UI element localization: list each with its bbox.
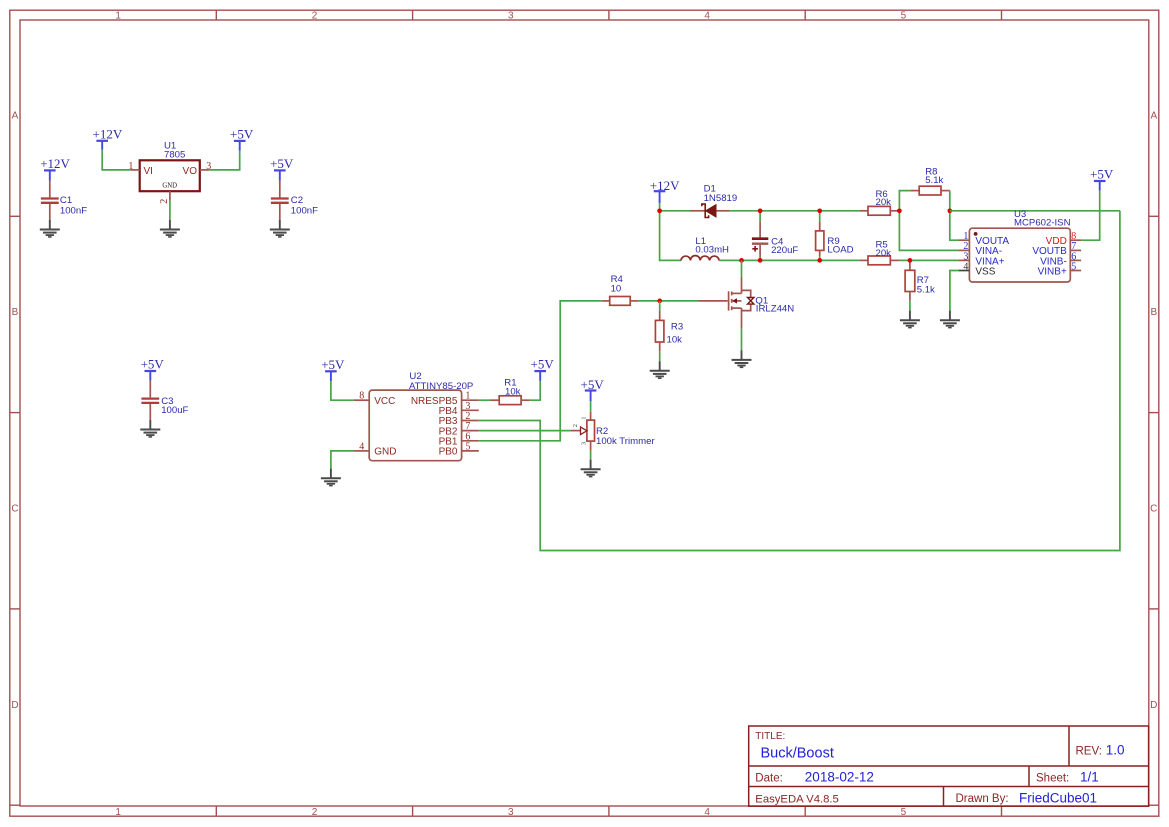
pin 3 (U3 VINA+) [959, 251, 970, 262]
svg-text:7805: 7805 [164, 149, 185, 160]
pin 8 (U3 VDD) [1070, 231, 1081, 242]
ground (below R7) [900, 311, 920, 328]
svg-text:2018-02-12: 2018-02-12 [805, 770, 874, 785]
svg-text:100k Trimmer: 100k Trimmer [596, 436, 655, 447]
resistor R2 100k Trimmer [570, 412, 655, 451]
svg-text:1: 1 [115, 10, 121, 21]
wire +12V rail down to L1 [660, 211, 681, 261]
svg-text:ATTINY85-20P: ATTINY85-20P [409, 381, 473, 392]
pin 6 (U3 VINB-) [1070, 251, 1081, 262]
ground (below R3) [650, 361, 670, 378]
wire VINA- branch [899, 211, 958, 251]
svg-text:VSS: VSS [975, 266, 995, 277]
wire U3 VDD to +5V [1081, 191, 1100, 241]
svg-text:+5V: +5V [1090, 167, 1114, 182]
SECTION3 U2 area [321, 211, 1120, 551]
svg-text:2: 2 [572, 424, 579, 427]
power +5V (net flag at R1) [531, 357, 555, 381]
capacitor C1 [41, 181, 87, 220]
pin 3 (U2 PB4) [462, 401, 479, 412]
wire R2 bottom to ground [590, 451, 592, 460]
resistor R6 20k [860, 189, 900, 215]
pin 1 (U1 VI) [128, 161, 139, 172]
op-amp U2 ATTINY85-20P [369, 371, 473, 461]
svg-text:4: 4 [963, 261, 968, 272]
transistor Q1 IRLZ44N [698, 277, 794, 329]
pin 1 (U2 NRESPB5) [462, 391, 479, 402]
resistor R4 10 [601, 274, 638, 305]
svg-text:+5V: +5V [531, 357, 555, 372]
node +12V rail junction [657, 208, 662, 213]
ground (below Q1) [732, 350, 752, 367]
op-amp U1 7805 regulator [140, 141, 200, 192]
svg-text:10: 10 [611, 284, 622, 295]
wire Q1 source to ground [741, 329, 743, 351]
svg-text:VINB+: VINB+ [1038, 266, 1067, 277]
node R9 top junction [817, 208, 822, 213]
op-amp U3 MCP602-ISN [969, 209, 1070, 282]
svg-text:3: 3 [508, 10, 514, 21]
node R5 R7 VINA+ junction [908, 258, 913, 263]
wire +12V stub to rail [659, 203, 661, 211]
svg-text:3: 3 [508, 807, 514, 818]
svg-text:0.03mH: 0.03mH [695, 245, 729, 256]
svg-text:A: A [12, 111, 19, 122]
wire R7 to ground [909, 301, 911, 311]
ground (below C1) [40, 220, 60, 237]
svg-text:10k: 10k [505, 386, 521, 397]
wire R1 to +5V [530, 381, 540, 400]
svg-text:+5V: +5V [270, 156, 294, 171]
power +5V (net flag at U1 output) [230, 126, 254, 150]
node R6 output junction [897, 208, 902, 213]
power +12V (net flag at U1 input) [93, 126, 123, 150]
wire R5 to VINA+ [899, 259, 958, 261]
svg-text:220uF: 220uF [771, 245, 798, 256]
power +12V (net flag at top rail) [650, 178, 680, 203]
svg-text:R3: R3 [671, 321, 683, 332]
svg-text:4: 4 [704, 807, 710, 818]
svg-text:C2: C2 [291, 195, 303, 206]
wire U2 GND to ground [331, 451, 354, 469]
wire R3 to ground [659, 351, 661, 361]
svg-text:+5V: +5V [321, 357, 345, 372]
resistor R8 5.1k [910, 167, 949, 195]
svg-text:Date:: Date: [755, 773, 783, 785]
power +5V (net flag at U2 VCC) [321, 357, 345, 381]
svg-text:2: 2 [312, 10, 318, 21]
svg-text:1N5819: 1N5819 [704, 193, 738, 204]
svg-text:+12V: +12V [93, 126, 123, 141]
svg-text:GND: GND [374, 447, 396, 458]
pin 4 (U2 GND) [354, 441, 370, 452]
pin 5 (U2 PB0) [462, 441, 479, 452]
wire VOUTA branch [950, 211, 959, 240]
ground (below C2) [270, 220, 290, 237]
svg-text:1: 1 [128, 161, 133, 172]
resistor R3 10k [655, 301, 683, 351]
svg-text:Buck/Boost: Buck/Boost [761, 746, 834, 762]
resistor R9 LOAD [816, 222, 854, 257]
svg-text:C: C [1150, 503, 1157, 514]
svg-text:A: A [1150, 111, 1157, 122]
svg-text:VI: VI [144, 166, 153, 177]
pin 2 (U3 VINA-) [959, 241, 970, 252]
pin 7 (U3 VOUTB) [1070, 241, 1081, 252]
node gate junction [657, 299, 662, 304]
svg-text:20k: 20k [876, 197, 892, 208]
svg-text:100uF: 100uF [161, 405, 188, 416]
svg-text:3: 3 [581, 442, 588, 445]
svg-text:TITLE:: TITLE: [755, 731, 785, 742]
svg-text:+12V: +12V [40, 156, 70, 171]
svg-text:4: 4 [704, 10, 710, 21]
svg-text:IRLZ44N: IRLZ44N [756, 304, 794, 315]
svg-text:+5V: +5V [230, 126, 254, 141]
node R9 bottom junction [817, 258, 822, 263]
resistor R5 20k [860, 240, 900, 265]
svg-text:100nF: 100nF [60, 206, 87, 217]
svg-text:1.0: 1.0 [1106, 743, 1125, 758]
svg-text:1: 1 [581, 416, 588, 419]
svg-text:1/1: 1/1 [1080, 770, 1099, 785]
svg-text:FriedCube01: FriedCube01 [1019, 790, 1097, 805]
svg-text:REV:: REV: [1076, 745, 1102, 757]
wire R4 to gate junction [639, 300, 660, 302]
pin 7 (U2 PB2) [462, 421, 479, 432]
node Q1 drain junction [739, 258, 744, 263]
capacitor C2 [271, 181, 318, 220]
ground (below U1 pin2) [160, 220, 180, 237]
svg-text:+5V: +5V [141, 357, 165, 372]
wire PB3 feedback loop [479, 211, 1120, 551]
svg-text:D: D [1150, 700, 1157, 711]
svg-text:MCP602-ISN: MCP602-ISN [1014, 217, 1071, 228]
wire mid rail segment [719, 259, 860, 261]
pin 4 (U3 VSS) [959, 261, 970, 272]
power +5V (net flag at U3 VDD) [1090, 167, 1114, 191]
wire R8 left branch [899, 191, 910, 211]
TITLEBLOCK [749, 726, 1149, 807]
power +5V (net flag at R2) [581, 377, 605, 401]
svg-text:5: 5 [901, 807, 907, 818]
svg-text:C: C [11, 503, 18, 514]
resistor R7 5.1k [905, 260, 935, 300]
wire U3 VSS to ground [950, 271, 959, 311]
inductor L1 [681, 236, 729, 260]
wire top rail left segment [660, 210, 690, 212]
wire C4 top lead [759, 211, 761, 222]
wire R9 top lead [819, 211, 821, 222]
node C4 bottom junction [758, 258, 763, 263]
wire R8 right branch [949, 191, 951, 211]
svg-text:B: B [12, 307, 19, 318]
SECTION1 U1 regulator area [40, 126, 318, 437]
svg-text:5.1k: 5.1k [917, 285, 935, 296]
ground (below C3) [140, 420, 160, 437]
wire C4 bottom lead [759, 257, 761, 261]
svg-text:10k: 10k [667, 334, 683, 345]
ground (below R2) [581, 460, 601, 477]
wire PB2 to R2 wiper [479, 430, 571, 432]
SECTION4 U3 area [940, 167, 1114, 328]
diode D1 1N5819 [690, 184, 737, 218]
svg-text:PB0: PB0 [439, 447, 458, 458]
SECTION2 top rail area [601, 167, 1120, 379]
node C4 top junction [758, 208, 763, 213]
svg-text:20k: 20k [876, 248, 892, 259]
power +5V (net flag at C3) [141, 357, 165, 381]
capacitor C3 [141, 381, 188, 420]
svg-text:5: 5 [465, 441, 470, 452]
pin 2 (U1 GND) [159, 191, 170, 204]
pin 8 (U2 VCC) [354, 391, 370, 402]
svg-text:Sheet:: Sheet: [1036, 773, 1069, 785]
pin 2 (U2 PB3) [462, 411, 479, 422]
wire top rail to feedback loop [950, 210, 1120, 212]
pin 6 (U2 PB1) [462, 431, 479, 442]
wire U1 pin3 to +5V [209, 151, 239, 170]
wire +5V to U2 VCC [331, 381, 354, 400]
resistor R1 10k [490, 378, 530, 405]
svg-text:VO: VO [183, 166, 198, 177]
svg-text:EasyEDA V4.8.5: EasyEDA V4.8.5 [755, 793, 839, 805]
capacitor C4 220uF polarized [752, 222, 799, 257]
wire +5V to R2 top [590, 401, 592, 412]
wire U2 pin1 to R1 [479, 399, 490, 401]
power +5V (net flag at C2) [270, 156, 294, 181]
ground (below U2 GND) [321, 469, 341, 486]
svg-text:5: 5 [1071, 261, 1076, 272]
wire top rail middle segment [730, 210, 860, 212]
ground (below U3 VSS) [940, 311, 960, 328]
svg-text:1: 1 [115, 807, 121, 818]
svg-text:5.1k: 5.1k [925, 175, 943, 186]
svg-text:100nF: 100nF [291, 206, 318, 217]
wire U1 pin2 to ground [169, 201, 171, 220]
svg-text:4: 4 [359, 441, 364, 452]
svg-text:8: 8 [359, 391, 364, 402]
svg-text:C1: C1 [60, 195, 72, 206]
node VOUTA junction [947, 208, 952, 213]
svg-text:GND: GND [162, 182, 177, 189]
svg-text:LOAD: LOAD [827, 244, 853, 255]
svg-text:Drawn By:: Drawn By: [956, 793, 1009, 805]
svg-text:B: B [1150, 307, 1157, 318]
pin 3 (U1 VO) [200, 161, 212, 172]
svg-text:5: 5 [901, 10, 907, 21]
svg-text:2: 2 [159, 199, 170, 204]
wire PB1 to R4 [479, 301, 602, 441]
wire R9 bottom lead [819, 256, 821, 260]
svg-text:D: D [11, 700, 18, 711]
wire Q1 drain [741, 260, 743, 277]
power +12V (net flag at C1) [40, 156, 70, 181]
svg-text:VCC: VCC [374, 396, 395, 407]
wire gate row [660, 300, 699, 302]
pin 5 (U3 VINB+) [1070, 261, 1081, 272]
wire +12V to U1 pin1 [102, 150, 130, 170]
svg-text:2: 2 [312, 807, 318, 818]
pin 1 (U3 VOUTA) [959, 231, 970, 242]
